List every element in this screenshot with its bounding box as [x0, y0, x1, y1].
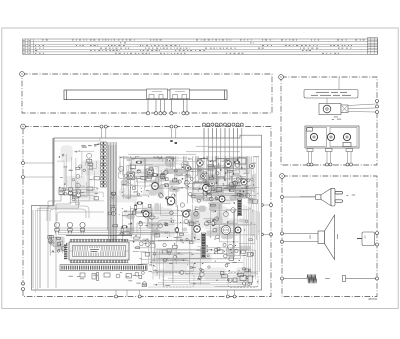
- cluster left of IC: [50, 237, 65, 252]
- dashed option box 2: [228, 273, 258, 288]
- wires left bottom: [33, 195, 79, 289]
- wire bottom drops: [116, 287, 235, 297]
- left middle extra traces: [64, 158, 104, 205]
- main board enclosure: [23, 127, 271, 297]
- trace fan top right: [190, 146, 221, 192]
- small parts under IC: [80, 273, 132, 281]
- bottom pad: [134, 285, 137, 288]
- capacitor block: [362, 232, 375, 246]
- wire label drop: [338, 77, 340, 90]
- lamp unit LA2: [170, 89, 190, 99]
- transformer pins: [309, 148, 352, 163]
- trimmers left bottom: [59, 188, 81, 197]
- speaker label: [310, 234, 338, 239]
- horizontal bus above IC: [58, 228, 160, 235]
- rear panel enclosure: [281, 77, 377, 165]
- mains cord: [284, 196, 316, 198]
- external parts enclosure: [282, 176, 377, 297]
- trace bundle right edge: [148, 205, 259, 287]
- node B: [21, 124, 26, 129]
- label row RED WH BLU: [81, 144, 102, 147]
- connector pins top row: [203, 123, 206, 126]
- loop trace lower left: [47, 206, 104, 221]
- upper horizontal traces: [128, 146, 261, 154]
- right column vertical traces: [249, 156, 259, 235]
- wire top row drop: [204, 128, 242, 159]
- wire top pair drop: [172, 129, 176, 142]
- wire plate to selector: [326, 98, 328, 104]
- selector wires: [348, 104, 376, 112]
- IC internal hatching: [74, 246, 124, 256]
- IF transformer group: [120, 146, 174, 180]
- cable trace band: [108, 142, 117, 254]
- node D: [280, 174, 285, 179]
- mains selector: [319, 104, 348, 115]
- driver transistors Q1 Q2 Q3: [54, 222, 59, 233]
- node C: [279, 75, 284, 80]
- output section components: [206, 211, 251, 256]
- nested corner traces bottom left: [35, 206, 54, 293]
- left border pins: [22, 162, 25, 165]
- extra parts lower right: [200, 248, 251, 283]
- transformer sockets: [310, 133, 317, 140]
- parts variation table: [23, 38, 378, 55]
- label plate: [304, 90, 358, 99]
- edge connector strip: [60, 265, 147, 271]
- option box 2 parts: [233, 276, 253, 286]
- telescopic aerial coil: [284, 274, 376, 283]
- speaker wires: [284, 234, 318, 242]
- board left section traces: [57, 151, 98, 196]
- dial assembly enclosure: [22, 74, 272, 113]
- capacitor block lead: [357, 238, 362, 240]
- IC module U1: [69, 242, 129, 260]
- dashed option box 1: [163, 273, 194, 287]
- IC label: [89, 248, 100, 253]
- selector label: [332, 117, 341, 119]
- lamp unit LA1: [147, 89, 168, 99]
- zone C lower right extra: [164, 169, 185, 185]
- audio section components: [126, 203, 195, 242]
- loudspeaker LS: [318, 215, 335, 260]
- pads left of IC: [64, 245, 67, 260]
- electrolytic capacitor C1: [221, 225, 230, 234]
- cable band extra lines: [109, 145, 116, 243]
- bottom edge connector: [66, 284, 93, 288]
- wire top pair pads: [170, 140, 172, 142]
- pad strip right: [201, 199, 241, 258]
- connector pad column: [101, 142, 107, 187]
- dial scale bar: [64, 90, 227, 100]
- extra tuner cluster lower right: [207, 173, 241, 197]
- coil label: [325, 278, 330, 280]
- wire top row deep drops: [204, 128, 242, 186]
- transformer terminal marks: [307, 149, 353, 152]
- corner loop traces: [122, 158, 193, 186]
- svg-text:4B7R0: 4B7R0: [368, 297, 378, 301]
- bottom components: [151, 247, 258, 288]
- connector pins pads column pair: [100, 125, 103, 128]
- series capacitor: [343, 276, 346, 282]
- transformer T1: [305, 126, 359, 148]
- board left edge emphasis: [52, 138, 54, 206]
- node A: [20, 72, 25, 77]
- printed circuit board outline: [32, 135, 262, 290]
- zone E right extra: [190, 202, 222, 225]
- wire right links: [245, 205, 269, 234]
- right border pins: [270, 204, 273, 207]
- parts right of connector: [135, 264, 147, 286]
- table row text: [23, 40, 364, 53]
- resistor pills: [121, 161, 240, 233]
- parts right of IC: [133, 232, 193, 267]
- lamp wires and pins: [148, 99, 187, 112]
- connector pins top pair: [170, 125, 173, 128]
- mains plug: [316, 188, 343, 206]
- left border pins lower box: [281, 196, 284, 199]
- tuner section components: [185, 144, 253, 204]
- copper wash areas: [61, 141, 257, 285]
- bottom border pins: [115, 295, 118, 298]
- plug label: [346, 194, 355, 196]
- bold rim components central band: [152, 183, 159, 190]
- curved traces central: [118, 154, 251, 232]
- clear top band: [118, 140, 259, 157]
- right border pins lower box: [376, 232, 379, 235]
- wires from left pins: [25, 163, 59, 177]
